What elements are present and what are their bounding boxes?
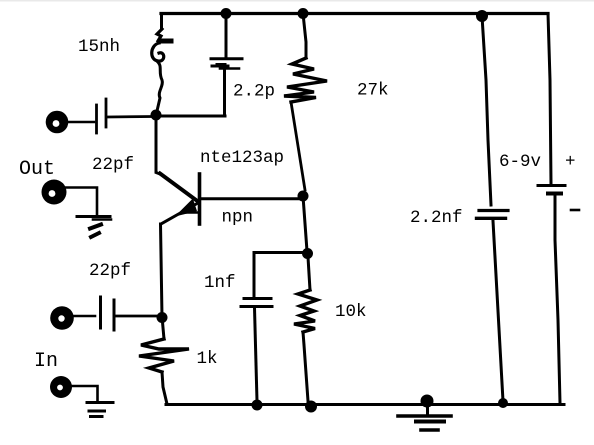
transistor Q1 emitter bar tick [182, 211, 199, 214]
node 10k to rail [305, 401, 317, 413]
svg-text:Out: Out [19, 158, 55, 181]
node 2.2nf to rail [498, 398, 508, 408]
wire node A to 2.2p bottom [160, 115, 225, 118]
svg-text:22pf: 22pf [89, 261, 131, 281]
capacitor C3 22pf bottom [101, 297, 158, 330]
svg-text:27k: 27k [357, 81, 389, 101]
capacitor C1 2.2p [211, 14, 242, 116]
resistor R3 10k [294, 257, 317, 401]
svg-text:npn: npn [222, 208, 254, 228]
resistor R2 1k [139, 322, 189, 404]
battery B1 6-9v [538, 186, 565, 404]
svg-text:nte123ap: nte123ap [200, 148, 284, 168]
node top rail junction to 2.2p [221, 8, 232, 19]
node In coupling junction [157, 312, 168, 323]
svg-text:In: In [34, 350, 58, 373]
node rail ground junction [421, 395, 434, 408]
transistor Q1 emitter arrow [178, 200, 197, 215]
capacitor C4 1nf [241, 253, 302, 402]
wire battery positive lead (top right corner down) [548, 14, 551, 185]
ground in jack symbol [87, 403, 113, 417]
node A collector junction [151, 110, 162, 121]
node 1nf to rail [252, 400, 263, 411]
svg-text:+: + [565, 152, 576, 172]
wire in jack to 22pf [74, 315, 95, 318]
svg-text:2.2p: 2.2p [233, 82, 275, 102]
transistor Q1 nte123ap collector lead [156, 115, 160, 174]
wire in ground jack lead [71, 386, 98, 401]
transistor Q1 base bar [198, 174, 202, 224]
label battery minus sign [571, 209, 579, 212]
resistor R1 27k [284, 14, 327, 191]
node C divider junction [302, 248, 313, 259]
svg-text:1k: 1k [197, 349, 218, 369]
capacitor C2 22pf top [97, 99, 153, 133]
capacitor C5 2.2nf [477, 16, 509, 401]
ground main symbol [398, 404, 451, 430]
wire top supply rail [161, 12, 548, 15]
svg-text:15nh: 15nh [78, 37, 120, 57]
connector J3 in signal jack [50, 306, 74, 330]
ground out jack symbol [77, 217, 111, 238]
inductor L1 15nh [152, 14, 171, 112]
transistor Q1 emitter lead [161, 203, 198, 224]
node top rail junction to 2.2nf [476, 10, 488, 22]
svg-text:22pf: 22pf [92, 155, 134, 175]
node B base junction [298, 191, 309, 202]
wire emitter down to In node [161, 224, 163, 317]
wire out jack to 22pf [69, 121, 94, 124]
wire out ground jack lead [66, 188, 97, 215]
wire base lead to node B [201, 197, 299, 200]
svg-text:1nf: 1nf [204, 273, 236, 293]
wire base node down to divider node [303, 196, 307, 251]
connector J4 in ground jack [50, 376, 72, 398]
connector J2 out ground jack [42, 180, 67, 205]
svg-text:2.2nf: 2.2nf [410, 208, 463, 228]
wire bottom ground rail [166, 403, 564, 406]
svg-text:6-9v: 6-9v [499, 152, 541, 172]
node top rail junction to 27k [298, 8, 309, 19]
connector J1 out signal jack [46, 111, 69, 134]
svg-text:10k: 10k [335, 302, 367, 322]
